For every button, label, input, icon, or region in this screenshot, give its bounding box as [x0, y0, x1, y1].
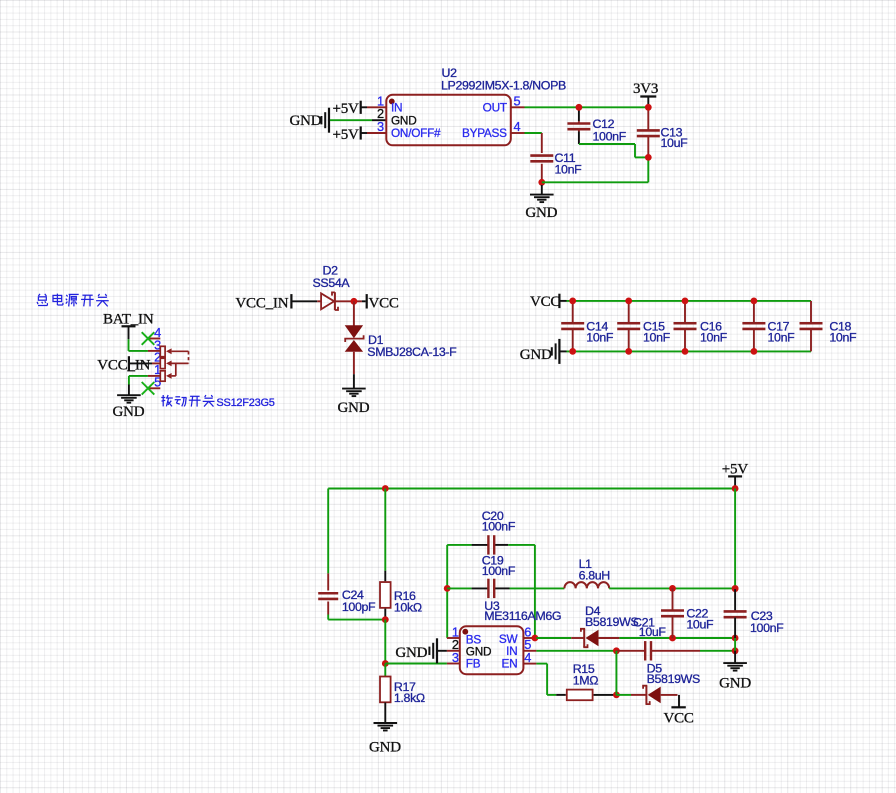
svg-text:ME3116AM6G: ME3116AM6G	[484, 609, 561, 623]
svg-text:10nF: 10nF	[586, 330, 614, 344]
svg-text:VCC: VCC	[530, 294, 560, 310]
svg-text:BAT_IN: BAT_IN	[103, 311, 154, 327]
svg-text:B5819WS: B5819WS	[585, 615, 638, 629]
svg-text:10uF: 10uF	[639, 625, 667, 639]
svg-text:SMBJ28CA-13-F: SMBJ28CA-13-F	[367, 345, 457, 359]
svg-text:SS12F23G5: SS12F23G5	[216, 397, 274, 409]
svg-text:LP2992IM5X-1.8/NOPB: LP2992IM5X-1.8/NOPB	[441, 79, 566, 93]
svg-text:GND: GND	[290, 113, 322, 129]
svg-text:100pF: 100pF	[342, 600, 376, 614]
svg-text:100nF: 100nF	[482, 520, 516, 534]
svg-text:ON/OFF#: ON/OFF#	[391, 126, 441, 140]
svg-text:10nF: 10nF	[643, 330, 671, 344]
svg-text:5: 5	[514, 93, 521, 108]
svg-text:10nF: 10nF	[768, 330, 796, 344]
svg-text:GND: GND	[369, 739, 401, 755]
svg-text:1.8kΩ: 1.8kΩ	[394, 691, 425, 705]
svg-text:FB: FB	[466, 657, 481, 671]
svg-text:GND: GND	[520, 347, 552, 363]
svg-text:10kΩ: 10kΩ	[394, 601, 422, 615]
svg-text:3: 3	[377, 119, 384, 134]
svg-text:10nF: 10nF	[555, 162, 583, 176]
svg-text:6.8uH: 6.8uH	[579, 569, 610, 583]
svg-text:GND: GND	[337, 400, 369, 416]
svg-text:10uF: 10uF	[686, 618, 714, 632]
svg-text:SS54A: SS54A	[313, 276, 351, 290]
svg-text:OUT: OUT	[483, 100, 507, 114]
svg-text:GND: GND	[525, 205, 557, 221]
svg-text:GND: GND	[719, 676, 751, 692]
svg-text:EN: EN	[502, 657, 518, 671]
svg-text:IN: IN	[391, 100, 402, 114]
svg-text:10nF: 10nF	[829, 330, 857, 344]
svg-text:100nF: 100nF	[750, 621, 784, 635]
svg-text:VCC_IN: VCC_IN	[97, 357, 150, 373]
svg-text:10uF: 10uF	[661, 136, 689, 150]
svg-text:1MΩ: 1MΩ	[573, 674, 599, 688]
svg-text:3V3: 3V3	[633, 81, 658, 97]
svg-text:+5V: +5V	[722, 462, 749, 478]
svg-text:10nF: 10nF	[700, 330, 728, 344]
svg-text:4: 4	[514, 119, 521, 134]
svg-text:BYPASS: BYPASS	[462, 126, 507, 140]
svg-text:GND: GND	[395, 645, 427, 661]
svg-text:VCC: VCC	[663, 710, 693, 726]
svg-text:100nF: 100nF	[482, 564, 516, 578]
svg-text:GND: GND	[113, 404, 145, 420]
svg-text:+5V: +5V	[333, 101, 360, 117]
svg-text:VCC_IN: VCC_IN	[235, 296, 288, 312]
svg-text:+5V: +5V	[333, 127, 360, 143]
svg-text:VCC: VCC	[369, 296, 399, 312]
svg-text:B5819WS: B5819WS	[647, 672, 700, 686]
svg-text:100nF: 100nF	[593, 129, 627, 143]
